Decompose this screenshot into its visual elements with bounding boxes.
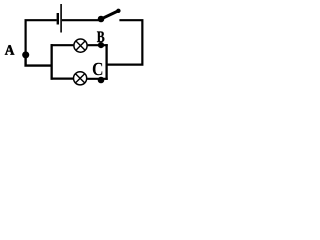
node B junction dot <box>98 42 104 48</box>
label C <box>93 63 103 75</box>
switch S: pivot contact dot <box>98 16 105 23</box>
wire: top branch left segment <box>51 44 74 46</box>
switch S: blade tip knob <box>116 9 120 13</box>
wire: battery to switch contact <box>62 19 99 21</box>
battery cell: long thin plate (positive) <box>60 4 62 33</box>
lamp L1 (top): circle <box>74 39 87 52</box>
battery cell: short thick plate (negative) <box>57 13 59 25</box>
wire: left bus bar of parallel branches <box>51 44 53 80</box>
switch S: open blade arm <box>102 11 119 19</box>
wire: bottom branch left segment <box>51 77 73 79</box>
label A <box>5 45 14 54</box>
node C junction dot <box>98 77 105 84</box>
wire: left vertical + top-left horizontal to battery <box>26 20 57 54</box>
wire: right bus bar of parallel branches <box>105 44 107 80</box>
wire: switch to top-right corner, right vertical, connector to lamp bus <box>107 20 143 64</box>
lamp L2: X cross <box>76 74 85 83</box>
wire: top branch right segment to bus <box>88 44 108 46</box>
wire: node A drop and horizontal feed to left bus <box>26 54 52 66</box>
lamp L2 (bottom): circle <box>74 72 87 85</box>
lamp L1: X cross <box>76 41 85 50</box>
node A junction dot <box>22 51 29 58</box>
wire: bottom branch right segment to bus <box>87 78 108 80</box>
label B <box>97 32 104 43</box>
